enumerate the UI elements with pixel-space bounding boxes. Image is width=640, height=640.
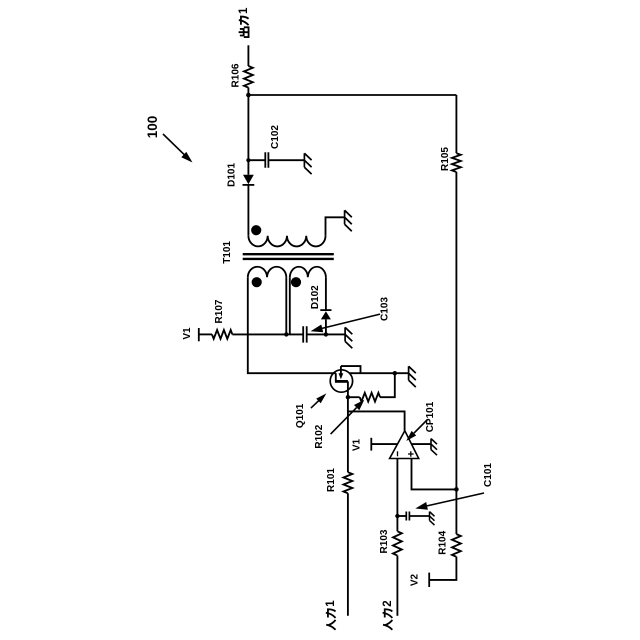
- capacitor C103: [303, 326, 307, 342]
- terminal V2: [428, 573, 430, 587]
- terminal V1 (CP101 supply): [370, 438, 372, 451]
- terminal V1 (left): [198, 328, 200, 341]
- node: dot C101 tap: [395, 514, 399, 518]
- svg-text:100: 100: [145, 116, 160, 139]
- wire: secondary right end up and to ground: [326, 217, 345, 235]
- wire: source to ground: [349, 372, 408, 374]
- resistor R102: [360, 393, 380, 402]
- wire: R105 down to R104: [455, 172, 457, 534]
- wire: D101 to transformer secondary: [247, 185, 249, 236]
- svg-text:D101: D101: [226, 163, 237, 187]
- pin label plus: [408, 451, 414, 457]
- wire: V1 tick to triangle left edge: [371, 443, 397, 445]
- wire: R104 down and left to V2: [429, 557, 456, 580]
- wire: CP101 output up and left to gate line: [348, 411, 405, 430]
- wire: inverting input down to R103: [396, 459, 398, 532]
- ground (C101): [430, 512, 435, 525]
- wire: gate line down to input 1 terminal: [347, 381, 349, 615]
- node: dot D102 at rail: [324, 332, 328, 336]
- wire: rail from R107 to C103: [232, 333, 303, 335]
- wire: triangle right edge to ground: [412, 443, 432, 445]
- wire: winding2 right end down to D102: [325, 277, 327, 310]
- svg-text:C101: C101: [483, 463, 494, 487]
- node: dot gate/R102: [346, 395, 350, 399]
- arrow for CP101: [414, 420, 428, 434]
- wire: primary1 right end down to rail: [285, 277, 287, 334]
- svg-text:V2: V2: [409, 573, 420, 586]
- svg-text:R104: R104: [438, 530, 449, 554]
- wire: branch to C102: [248, 159, 265, 161]
- label 入力1: [325, 600, 337, 630]
- svg-text:R103: R103: [379, 529, 390, 553]
- node: dot source/R102 return: [393, 371, 397, 375]
- pin label minus: [397, 451, 399, 456]
- wire: gate to R102: [348, 396, 360, 398]
- transformer T101 core: [243, 254, 334, 259]
- svg-text:V1: V1: [182, 327, 193, 340]
- wire: top horizontal to right rail: [248, 94, 456, 96]
- resistor R101: [344, 472, 353, 493]
- wire: non-inverting input down and right: [412, 459, 457, 490]
- resistor R105: [452, 153, 461, 172]
- resistor R104: [452, 534, 461, 557]
- capacitor C102: [265, 152, 268, 168]
- ground (CP101 supply): [431, 439, 437, 456]
- wire: output lead from 出力1 terminal down to R106: [247, 45, 249, 66]
- svg-text:Q101: Q101: [295, 403, 306, 428]
- label 出力1: [238, 7, 250, 37]
- polarity dot (secondary): [251, 225, 261, 235]
- arrow for C101: [427, 493, 484, 506]
- ground (Q101 source): [409, 366, 416, 387]
- wire: R103 down to input 2 terminal: [396, 556, 398, 616]
- label 入力2: [382, 600, 394, 629]
- wire: right rail top down to R105: [455, 95, 457, 153]
- polarity dot (winding 2): [291, 277, 301, 287]
- svg-text:R107: R107: [214, 299, 225, 323]
- svg-text:CP101: CP101: [425, 401, 436, 432]
- wire: rail from C103 to ground: [307, 333, 345, 335]
- svg-text:T101: T101: [222, 241, 233, 264]
- resistor R106: [244, 66, 253, 88]
- wire: winding2 left end down to rail: [289, 277, 291, 334]
- arrow for C103: [322, 314, 380, 328]
- svg-text:1: 1: [325, 600, 337, 607]
- transformer T101 auxiliary winding 2: [290, 267, 326, 277]
- wire: main vertical from R106 to D101: [247, 88, 249, 175]
- svg-text:C102: C102: [270, 125, 281, 149]
- svg-text:R102: R102: [314, 424, 325, 448]
- svg-text:R105: R105: [440, 147, 451, 171]
- wire: D102 anode down to rail: [325, 319, 327, 334]
- wire: R102 right end up to source wire: [380, 373, 395, 397]
- polarity dot (primary 1): [252, 277, 262, 287]
- svg-text:D102: D102: [310, 285, 321, 309]
- wire: C101 to ground: [409, 515, 429, 517]
- svg-text:R106: R106: [231, 63, 242, 87]
- node: dot primary1 right at rail: [284, 332, 288, 336]
- svg-text:C103: C103: [380, 297, 391, 321]
- transformer T101 primary winding 1: [248, 267, 286, 277]
- node: junction dot at C102 tap: [246, 158, 250, 162]
- resistor R107: [212, 330, 232, 339]
- svg-text:2: 2: [382, 600, 394, 606]
- wire: V1 to R107: [199, 333, 212, 335]
- capacitor C101: [406, 512, 409, 521]
- wire: C102 to ground: [268, 159, 304, 161]
- ground (rail end): [345, 327, 352, 348]
- wire: C101 branch: [397, 515, 406, 517]
- svg-text:V1: V1: [351, 438, 362, 451]
- svg-text:R101: R101: [326, 468, 337, 492]
- transistor Q101 (MOSFET in circle): [330, 366, 360, 392]
- diode D101: [243, 175, 255, 185]
- node: dot at feedback junction: [454, 487, 459, 492]
- arrow for Q101: [311, 400, 320, 408]
- svg-text:1: 1: [238, 7, 250, 14]
- node: junction dot below R106: [246, 93, 251, 98]
- resistor R103: [393, 531, 402, 555]
- ground (T101 secondary): [345, 210, 352, 231]
- diode D102: [320, 310, 331, 319]
- op-amp CP101 (comparator triangle): [390, 431, 419, 459]
- wire: primary1 left end down to drain corner and to Q101: [248, 277, 336, 373]
- transformer T101 secondary winding: [248, 236, 325, 247]
- ground (C102): [304, 153, 311, 174]
- arrow for 100: [163, 134, 185, 156]
- arrow for R102: [331, 408, 357, 435]
